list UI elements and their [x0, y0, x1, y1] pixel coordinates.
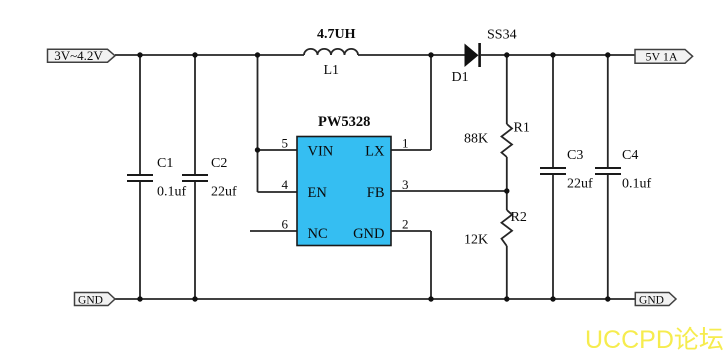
svg-text:GND: GND	[639, 294, 664, 306]
svg-text:3: 3	[402, 177, 409, 192]
svg-text:EN: EN	[308, 185, 328, 201]
svg-text:L1: L1	[324, 63, 340, 78]
svg-text:C4: C4	[622, 148, 638, 163]
svg-text:NC: NC	[308, 226, 328, 242]
svg-text:0.1uf: 0.1uf	[622, 177, 652, 192]
svg-text:88K: 88K	[464, 132, 488, 147]
svg-text:GND: GND	[353, 226, 384, 242]
svg-text:22uf: 22uf	[211, 185, 237, 200]
svg-text:5: 5	[282, 136, 289, 151]
svg-text:LX: LX	[365, 144, 385, 160]
svg-text:C3: C3	[567, 148, 583, 163]
svg-text:2: 2	[402, 217, 409, 232]
svg-text:GND: GND	[78, 294, 103, 306]
svg-text:R1: R1	[514, 121, 530, 136]
svg-text:4: 4	[282, 177, 289, 192]
svg-text:C2: C2	[211, 156, 227, 171]
svg-text:C1: C1	[157, 156, 173, 171]
svg-text:R2: R2	[511, 210, 527, 225]
svg-text:5V 1A: 5V 1A	[645, 50, 677, 64]
svg-text:22uf: 22uf	[567, 177, 593, 192]
svg-text:PW5328: PW5328	[318, 114, 370, 130]
svg-text:3V~4.2V: 3V~4.2V	[54, 48, 103, 63]
svg-text:6: 6	[282, 217, 289, 232]
svg-text:1: 1	[402, 136, 409, 151]
svg-text:D1: D1	[452, 70, 469, 85]
svg-text:12K: 12K	[464, 233, 488, 248]
svg-text:0.1uf: 0.1uf	[157, 185, 187, 200]
svg-text:UCCPD论坛: UCCPD论坛	[585, 326, 724, 354]
svg-text:SS34: SS34	[487, 28, 517, 43]
svg-text:4.7UH: 4.7UH	[317, 27, 356, 42]
svg-text:VIN: VIN	[308, 144, 334, 160]
svg-text:FB: FB	[367, 185, 385, 201]
